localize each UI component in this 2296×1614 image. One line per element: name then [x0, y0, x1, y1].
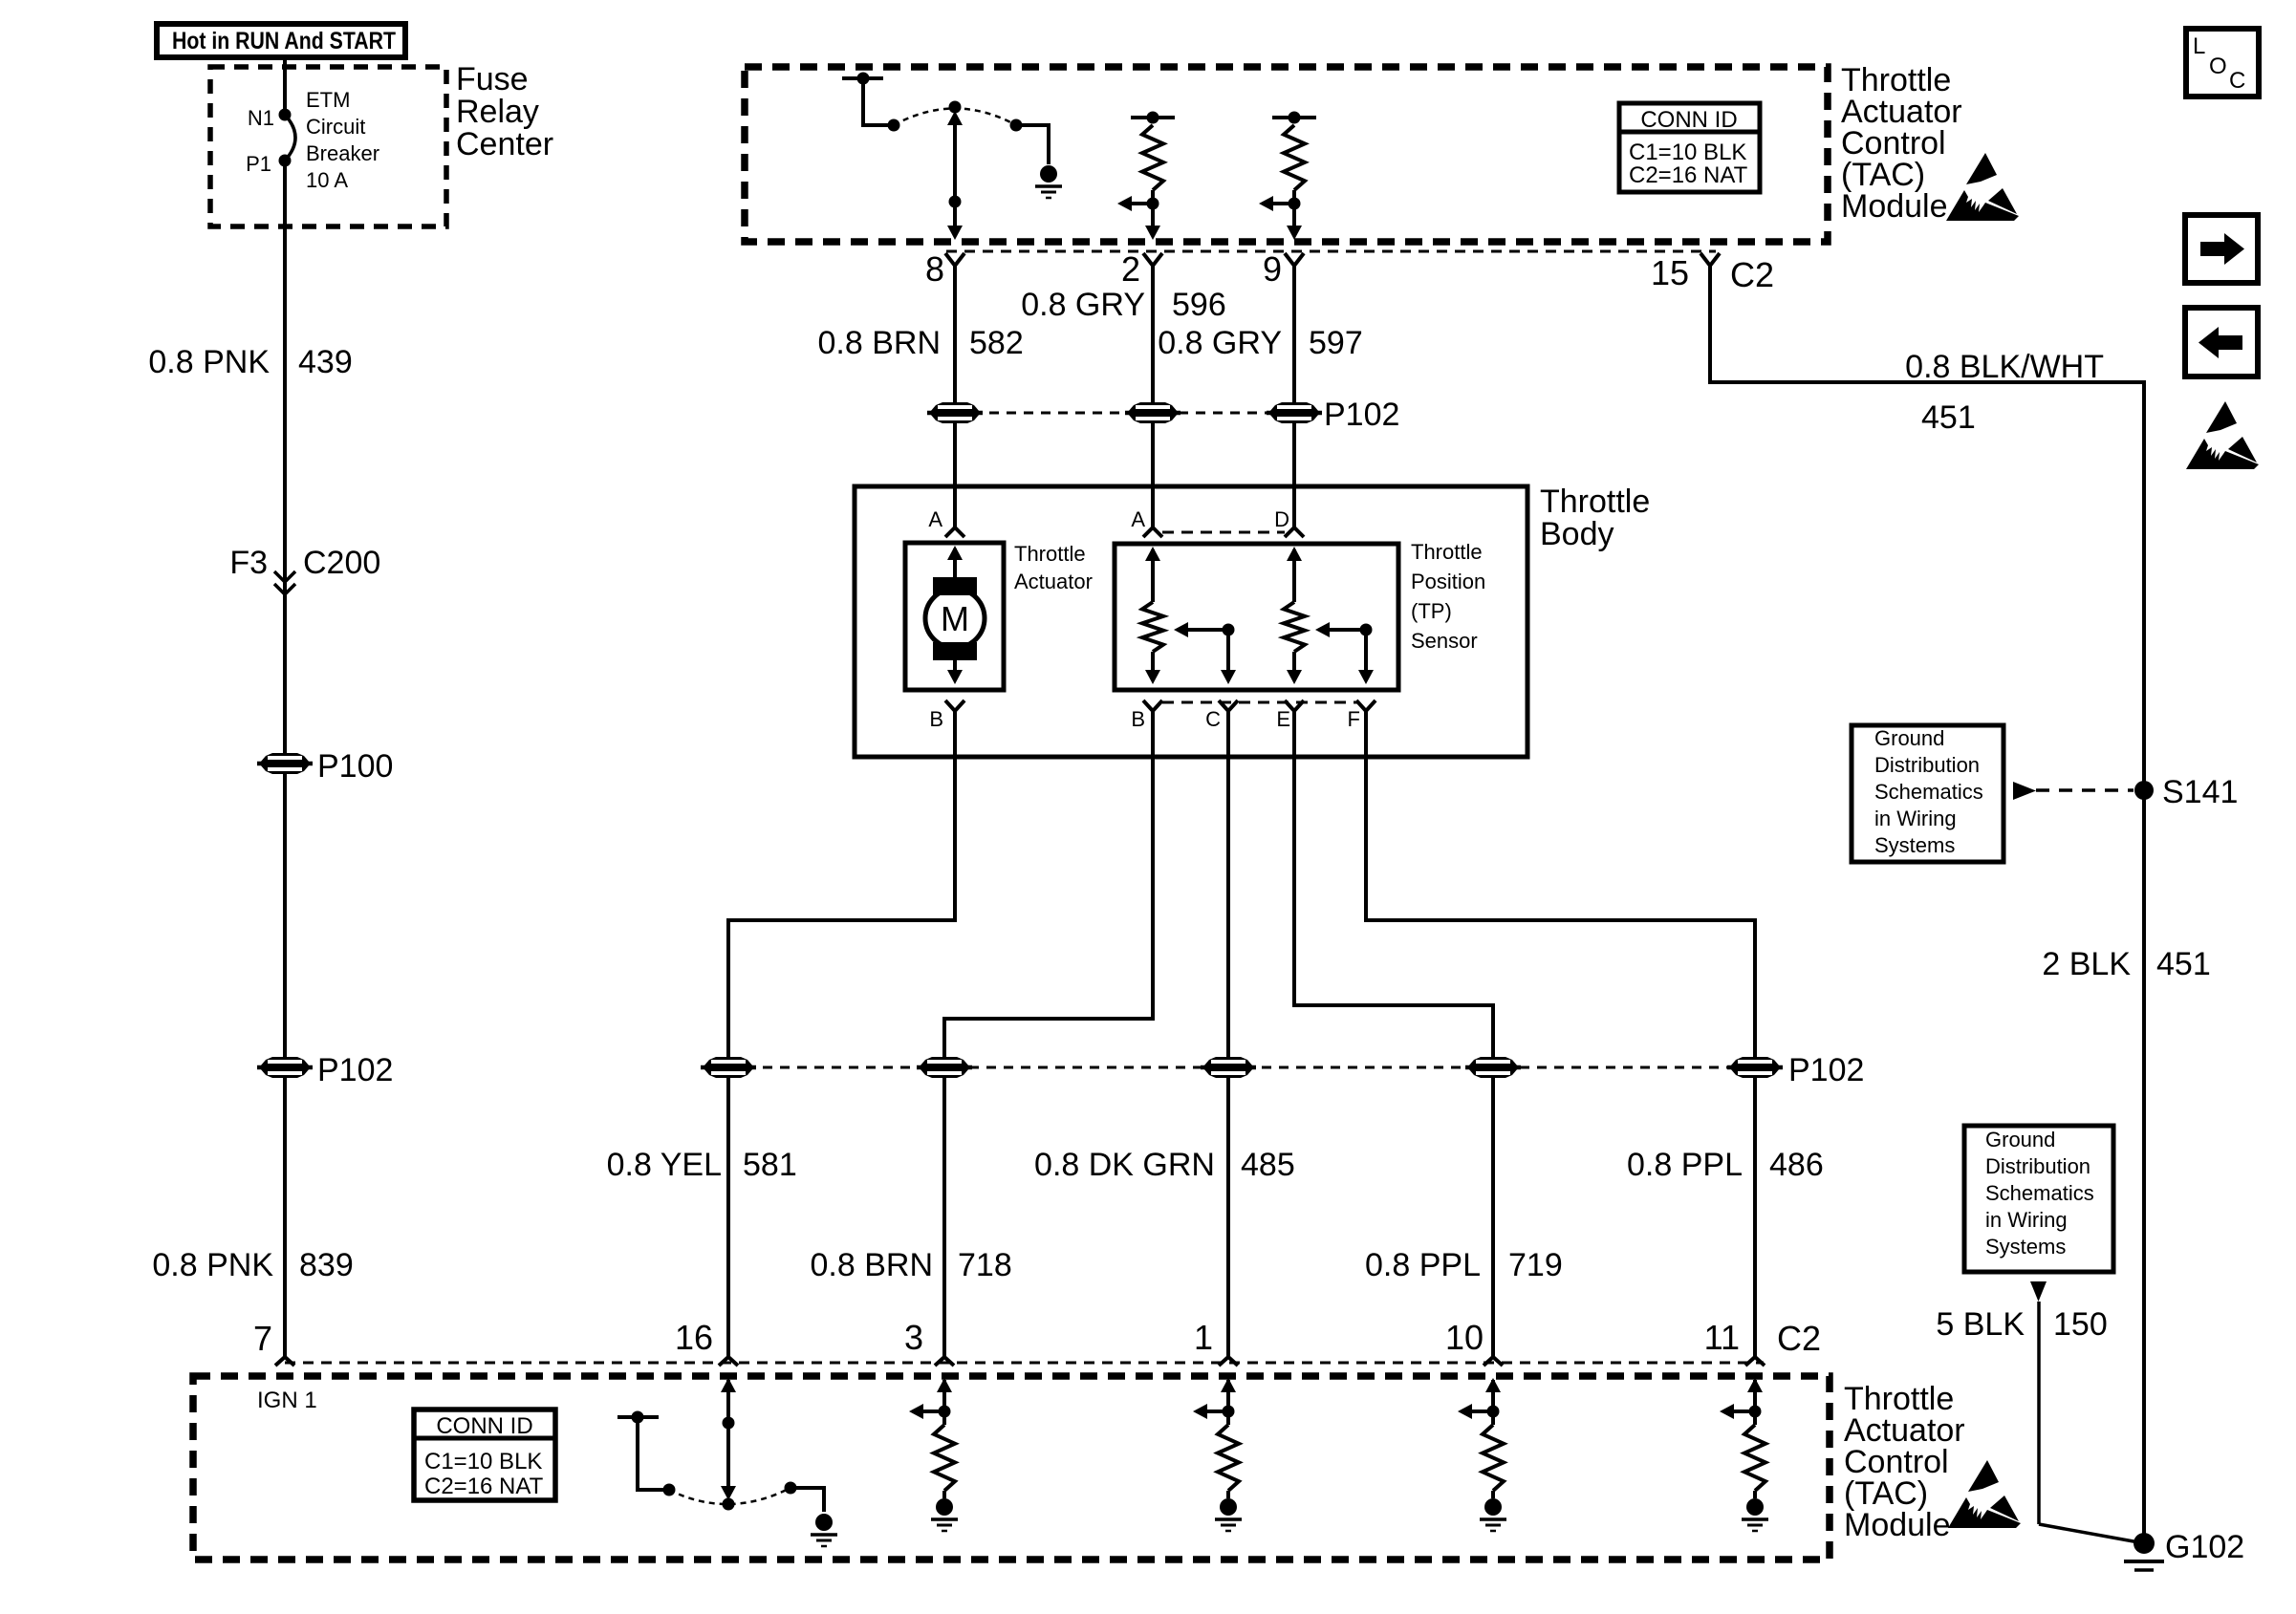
svg-text:718: 718 — [958, 1247, 1012, 1283]
svg-text:F3: F3 — [229, 545, 268, 581]
svg-text:(TP): (TP) — [1411, 599, 1452, 623]
svg-text:C2: C2 — [1777, 1319, 1821, 1358]
svg-text:8: 8 — [925, 249, 944, 289]
svg-text:596: 596 — [1172, 287, 1226, 323]
svg-text:P102: P102 — [317, 1052, 393, 1088]
svg-text:485: 485 — [1241, 1147, 1295, 1183]
svg-text:9: 9 — [1263, 249, 1282, 289]
svg-text:C1=10 BLK: C1=10 BLK — [1629, 140, 1746, 165]
svg-text:O: O — [2209, 54, 2227, 79]
svg-text:7: 7 — [253, 1319, 272, 1358]
svg-text:582: 582 — [969, 325, 1024, 361]
svg-text:P102: P102 — [1788, 1052, 1864, 1088]
svg-text:11: 11 — [1704, 1318, 1740, 1357]
svg-text:0.8 PNK: 0.8 PNK — [148, 344, 270, 380]
svg-text:1: 1 — [1194, 1318, 1213, 1357]
svg-text:0.8 YEL: 0.8 YEL — [607, 1147, 722, 1183]
svg-text:0.8 BRN: 0.8 BRN — [811, 1247, 934, 1283]
svg-text:Body: Body — [1540, 516, 1614, 552]
svg-text:0.8 PPL: 0.8 PPL — [1365, 1247, 1481, 1283]
svg-text:15: 15 — [1651, 253, 1689, 292]
svg-text:Center: Center — [456, 126, 553, 162]
svg-text:IGN 1: IGN 1 — [257, 1388, 317, 1413]
svg-text:P102: P102 — [1324, 397, 1399, 433]
svg-text:in Wiring: in Wiring — [1874, 807, 1957, 830]
svg-text:0.8 PNK: 0.8 PNK — [152, 1247, 273, 1283]
svg-text:451: 451 — [1921, 399, 1976, 436]
svg-text:Ground: Ground — [1985, 1128, 2055, 1151]
svg-text:0.8 BRN: 0.8 BRN — [818, 325, 942, 361]
svg-text:719: 719 — [1508, 1247, 1563, 1283]
svg-text:Hot in RUN And START: Hot in RUN And START — [172, 28, 396, 54]
svg-text:M: M — [941, 599, 969, 638]
svg-text:0.8 BLK/WHT: 0.8 BLK/WHT — [1905, 349, 2104, 385]
svg-text:L: L — [2193, 33, 2205, 59]
svg-text:3: 3 — [904, 1318, 923, 1357]
svg-text:A: A — [1131, 507, 1145, 531]
svg-text:Systems: Systems — [1985, 1235, 2066, 1259]
svg-text:B: B — [1131, 707, 1145, 731]
svg-text:S141: S141 — [2162, 774, 2238, 810]
svg-text:Circuit: Circuit — [306, 115, 365, 139]
svg-text:0.8 PPL: 0.8 PPL — [1627, 1147, 1743, 1183]
svg-text:Throttle: Throttle — [1014, 542, 1086, 566]
svg-text:5 BLK: 5 BLK — [1936, 1306, 2025, 1343]
svg-text:10: 10 — [1445, 1318, 1484, 1357]
svg-text:F: F — [1348, 707, 1360, 731]
svg-text:Distribution: Distribution — [1874, 753, 1980, 777]
svg-text:G102: G102 — [2165, 1529, 2244, 1565]
svg-text:C: C — [1205, 707, 1221, 731]
svg-text:0.8 GRY: 0.8 GRY — [1021, 287, 1145, 323]
svg-text:10 A: 10 A — [306, 168, 348, 192]
svg-text:Actuator: Actuator — [1014, 570, 1093, 593]
svg-text:2: 2 — [1121, 249, 1140, 289]
svg-text:2 BLK: 2 BLK — [2042, 946, 2131, 982]
svg-text:B: B — [929, 707, 943, 731]
svg-text:CONN ID: CONN ID — [436, 1413, 532, 1439]
svg-text:Schematics: Schematics — [1985, 1181, 2094, 1205]
svg-text:0.8 GRY: 0.8 GRY — [1158, 325, 1282, 361]
svg-text:0.8 DK GRN: 0.8 DK GRN — [1034, 1147, 1215, 1183]
svg-text:Module: Module — [1844, 1507, 1951, 1543]
svg-text:P100: P100 — [317, 748, 393, 785]
svg-text:Position: Position — [1411, 570, 1485, 593]
svg-text:N1: N1 — [248, 106, 274, 130]
svg-text:C1=10 BLK: C1=10 BLK — [424, 1449, 542, 1474]
svg-text:CONN ID: CONN ID — [1640, 107, 1737, 133]
svg-text:Ground: Ground — [1874, 726, 1944, 750]
svg-text:ETM: ETM — [306, 88, 350, 112]
svg-text:D: D — [1274, 507, 1289, 531]
svg-text:439: 439 — [298, 344, 353, 380]
svg-text:150: 150 — [2053, 1306, 2108, 1343]
svg-text:Throttle: Throttle — [1411, 540, 1483, 564]
svg-text:451: 451 — [2156, 946, 2211, 982]
svg-text:A: A — [928, 507, 942, 531]
svg-text:Distribution: Distribution — [1985, 1154, 2090, 1178]
svg-text:C: C — [2229, 68, 2245, 94]
svg-text:839: 839 — [299, 1247, 354, 1283]
svg-text:P1: P1 — [246, 152, 271, 176]
svg-text:Sensor: Sensor — [1411, 629, 1478, 653]
svg-text:C2=16 NAT: C2=16 NAT — [1629, 162, 1748, 188]
svg-text:E: E — [1276, 707, 1290, 731]
svg-text:C2=16 NAT: C2=16 NAT — [424, 1474, 544, 1499]
svg-text:Module: Module — [1841, 188, 1948, 225]
svg-text:C2: C2 — [1730, 255, 1774, 294]
svg-text:Schematics: Schematics — [1874, 780, 1983, 804]
svg-text:Breaker: Breaker — [306, 141, 379, 165]
svg-text:16: 16 — [675, 1318, 713, 1357]
svg-text:581: 581 — [743, 1147, 797, 1183]
svg-text:in Wiring: in Wiring — [1985, 1208, 2068, 1232]
svg-text:597: 597 — [1309, 325, 1363, 361]
svg-text:Throttle: Throttle — [1540, 484, 1650, 520]
svg-text:486: 486 — [1769, 1147, 1824, 1183]
svg-text:C200: C200 — [303, 545, 380, 581]
svg-text:Fuse: Fuse — [456, 61, 529, 97]
svg-text:Relay: Relay — [456, 94, 539, 130]
svg-text:Systems: Systems — [1874, 833, 1955, 857]
